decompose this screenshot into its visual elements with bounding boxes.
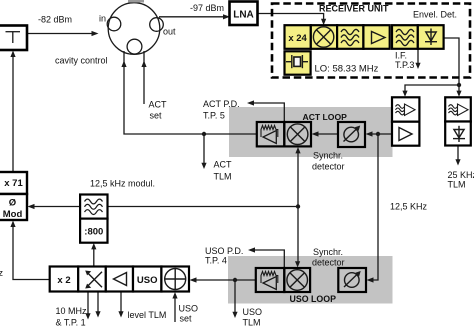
svg-text:detector: detector [312,258,345,268]
multiplier x2 [50,267,78,292]
junction [376,132,380,136]
svg-text:LNA: LNA [233,10,254,21]
wire USO amp output to USO adjust [195,279,256,281]
svg-text:z: z [0,268,4,278]
stack1 amplifier [392,122,419,146]
USO oscillator [133,267,161,292]
wire cavity to LNA [159,16,224,18]
svg-text:Envel. Det.: Envel. Det. [413,10,457,20]
buffer amplifier left [106,267,133,292]
svg-text:USO: USO [137,275,158,286]
svg-text:-97 dBm: -97 dBm [190,3,224,13]
svg-text::800: :800 [84,227,103,238]
receiver filter 1 [337,25,363,49]
wire ACT TLM branch [203,134,205,163]
USO adjust summing [161,267,189,292]
stack2 detector diode [445,122,471,146]
wire USO TLM branch [234,280,236,313]
svg-text:Synchr.: Synchr. [313,247,343,257]
junction [296,204,300,208]
svg-text:x 71: x 71 [4,178,23,189]
wire envelope detector output to stacks [405,38,459,91]
junction [457,83,461,87]
ACT phase shifter [338,122,365,147]
receiver mixer [311,25,337,49]
cavity tuning plunger gray tab [128,0,144,3]
svg-text:ACT P.D.: ACT P.D. [203,99,240,109]
wire USO set input [174,297,176,322]
svg-text:TLM: TLM [243,317,261,326]
svg-text:T.P.3: T.P.3 [395,60,414,70]
svg-text:level TLM: level TLM [128,310,167,320]
svg-text:Mod: Mod [3,209,23,220]
:800 divider [80,219,107,243]
svg-text:12,5 kHz modul.: 12,5 kHz modul. [90,178,155,188]
svg-text:USO: USO [243,307,263,317]
svg-text:ACT: ACT [214,160,233,170]
svg-text:x 2: x 2 [57,275,70,286]
svg-text:12,5 KHz: 12,5 KHz [390,202,428,212]
svg-text:TLM: TLM [448,180,466,190]
svg-text:25 KHz: 25 KHz [448,170,474,180]
cavity resonator [107,3,163,55]
svg-text:TLM: TLM [214,172,232,182]
wire I.F. test point T.P.3 [417,49,419,63]
svg-text:x 24: x 24 [288,33,307,44]
svg-text:Ø: Ø [9,198,16,209]
svg-text:set: set [180,314,193,324]
junction [233,278,237,282]
USO loop mixer / synchronous detector [284,268,310,292]
multiplier x24 [285,25,311,49]
svg-text:USO: USO [179,304,199,314]
junction [202,132,206,136]
wire splitter up to :800 divider [93,248,95,267]
svg-text:cavity control: cavity control [55,55,108,65]
wire T box to cavity [27,33,92,35]
svg-text:Synchr.: Synchr. [313,151,343,161]
wire LNA to receiver mixer [258,14,324,20]
antenna test port box T [0,26,27,51]
wire 10 MHz outputs [87,292,89,315]
USO phase shifter [338,268,366,292]
splitter X [78,267,106,292]
ACT loop mixer / synchronous detector [284,122,311,146]
wire ACT set stub [143,51,145,104]
svg-text:ACT: ACT [149,100,168,110]
wire stack1 amp to ACT phase shifter [371,133,392,135]
wire ACT amp output to cavity control [124,51,257,134]
USO loop amplifier [256,268,284,292]
ACT loop gray band [229,107,393,157]
svg-text:& T.P. 1: & T.P. 1 [56,317,86,326]
wire ACT phase shifter to ACT mixer [317,133,338,135]
envelope detector diode [418,25,444,49]
stack2 filter amplifier [445,97,471,121]
svg-text:T.P. 4: T.P. 4 [205,255,227,265]
12.5 kHz filter [80,195,107,219]
LNA box [230,2,258,26]
svg-text:USO P.D.: USO P.D. [205,246,243,256]
wire USO P.D. test point T.P.4 [254,250,284,268]
svg-text:RECEIVER UNIT: RECEIVER UNIT [319,4,389,14]
svg-text:USO LOOP: USO LOOP [290,294,337,304]
multiplier x71 [0,172,27,194]
svg-text:LO: 58.33 MHz: LO: 58.33 MHz [315,64,379,75]
svg-text:-82 dBm: -82 dBm [38,14,72,24]
USO loop gray band [228,256,393,304]
wire 25 kHz TLM output [457,146,459,161]
phase modulator [0,194,27,220]
wire x71 multiplier up to T box [12,56,14,172]
wire ACT P.D. test point T.P.5 [253,103,284,122]
svg-text:out: out [163,27,176,37]
svg-text:set: set [150,111,163,121]
ACT loop amplifier [257,122,285,146]
stack1 filter amplifier [392,97,419,121]
wire x2 output to phase modulator [13,226,50,280]
svg-text:I.F.: I.F. [395,50,407,60]
wire 12.5 kHz reference to synchronous detectors [108,206,299,208]
svg-text:detector: detector [312,162,345,172]
wire level TLM output [120,292,122,313]
receiver filter 2 [392,25,418,49]
receiver IF amplifier [363,25,389,49]
local oscillator crystal [285,51,311,74]
svg-text:10 MHz: 10 MHz [56,306,88,316]
svg-text:ACT LOOP: ACT LOOP [303,112,348,122]
wire 12.5 kHz down to USO phase shifter [372,134,378,280]
receiver unit dashed border [272,4,470,78]
svg-text:in: in [99,14,106,24]
wire filter to phase modulator [33,206,81,208]
svg-text:T.P. 5: T.P. 5 [203,110,225,120]
